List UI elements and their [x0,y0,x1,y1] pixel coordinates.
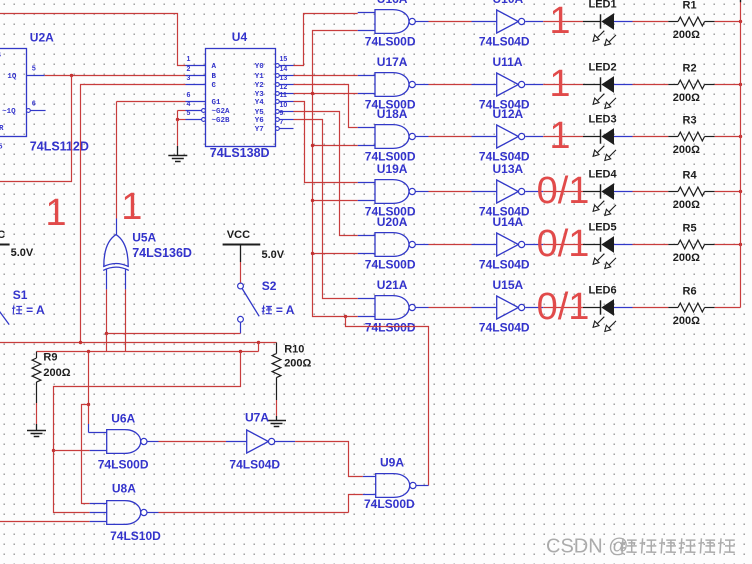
svg-text:74LS04D: 74LS04D [479,258,530,272]
junction R9 net to U6A/U8A feed [87,350,90,353]
switch S1 arm (clipped) [0,310,9,325]
U20A input stub 2 [358,253,375,255]
resistor R4 200ohm [678,187,715,196]
svg-text:U14A: U14A [493,215,524,229]
wire inverter U13A output to LED4 [525,191,543,193]
U4 output pin Y6 (pin 9) [276,118,294,122]
inverter U13A 74LS04D [497,180,525,203]
svg-text:5.0V: 5.0V [262,249,285,261]
svg-text:1: 1 [549,63,570,105]
U5A input stub right [125,270,127,290]
svg-text:6: 6 [32,100,36,107]
bus branch to NAND input 2 [313,200,358,202]
svg-text:R3: R3 [683,115,697,127]
wire to U6A input 2 [54,450,90,452]
U4 input pin G1 (pin 6) [186,101,206,103]
svg-text:R1: R1 [683,0,697,12]
svg-text:6: 6 [187,92,191,99]
wire R9 net down to U6A input 1 [88,352,90,425]
svg-text:Y6: Y6 [255,117,265,125]
wire to R10 hook [259,342,277,344]
svg-text:G1: G1 [212,99,222,107]
wire ~G2A ~G2B jog to ground [178,110,186,112]
svg-text:0/1: 0/1 [537,223,590,265]
svg-text:U20A: U20A [377,215,408,229]
svg-text:0/1: 0/1 [537,170,590,212]
NAND gate U19A 74LS00D [375,180,415,204]
wire connector down to R9 net [106,334,108,352]
svg-text:U9A: U9A [380,456,404,470]
wire branch to U8A input 1 [82,405,90,504]
wire LED5 to R5 [614,244,633,246]
junction right bus row 4 [739,190,742,193]
svg-text:R4: R4 [683,170,698,182]
svg-text:LED4: LED4 [589,169,618,181]
svg-text:~1Q: ~1Q [2,108,16,116]
junction bus [311,144,314,147]
junction bus [311,199,314,202]
ground under R10 [267,421,286,427]
U18A input stub 1 [358,127,375,129]
wire LED2 to R2 [614,84,633,86]
svg-text:7: 7 [280,119,284,126]
wire row 4: NAND output to inverter input [415,191,428,193]
svg-text:Y1: Y1 [255,73,265,81]
junction U5A input with S2 wire [105,332,108,335]
U4 output pin Y5 (pin 10) [276,110,294,114]
wire R10 to ground [276,400,278,416]
svg-text:74LS136D: 74LS136D [132,246,192,260]
resistor R10 200ohm (vertical) [272,343,281,401]
wire R9 to ground [36,403,38,424]
inverter U10A 74LS04D [497,10,525,33]
U17A input stub 2 [358,93,375,95]
NAND gate U16A 74LS00D [375,10,415,34]
svg-text:B: B [212,73,217,81]
junction right bus row 1 [739,20,742,23]
wire Y5 to U20A input 1 [294,112,358,236]
svg-text:1: 1 [45,192,66,234]
U6A input stub 2 [90,450,107,452]
inverter U15A 74LS04D [497,296,525,319]
U9A output stub [416,485,428,487]
junction on 1Q wire [70,74,73,77]
U5A output stub [116,219,118,235]
wire row 5: NAND output to inverter input [415,244,428,246]
U4 output pin Y7 (pin 7) [276,127,294,131]
wire U5A left input down [106,289,108,333]
wire row 3: NAND output to inverter input [415,136,428,138]
svg-text:200Ω: 200Ω [673,315,700,327]
bus branch to NAND input 2 [313,253,358,255]
U4 input pin A (pin 1) [186,65,206,67]
NAND gate U20A 74LS00D [375,233,415,257]
junction ~G2B [176,118,179,121]
svg-text:U11A: U11A [493,55,523,69]
wire inverter U10A output to LED1 [525,21,543,23]
U16A input stub 2 [358,30,375,32]
svg-text:200Ω: 200Ω [43,367,70,379]
svg-text:5.0V: 5.0V [11,247,34,259]
IC U2A 74LS112D flip-flop box (clipped at left edge) [0,49,27,137]
wire U8A output to U9A input 2 [147,512,158,514]
wire U7A output to U9A input 1 [275,441,295,443]
wire Y3 to U17A input 2 [294,93,358,95]
NAND gate U21A 74LS00D [375,296,415,320]
IC U4 74LS138D decoder box [206,49,276,147]
ground under U4 [168,156,187,162]
U4 input pin C (pin 3) [186,84,206,86]
svg-text:LED3: LED3 [589,114,617,126]
svg-text:A: A [212,63,217,71]
svg-text:200Ω: 200Ω [673,29,700,41]
svg-text:11: 11 [280,92,288,99]
svg-text:R2: R2 [683,63,697,75]
U21A input stub 2 [358,316,375,318]
junction right bus row 5 [739,243,742,246]
svg-text:= A: = A [24,303,45,317]
svg-text:74LS04D: 74LS04D [229,458,280,472]
svg-text:R9: R9 [43,352,57,364]
wire S2 to U5A input junction [107,333,241,335]
bus branch to NAND input 2 [313,145,358,147]
wire R2 to right bus [715,84,741,86]
U8A input stub 2 [90,512,107,514]
NAND gate U6A 74LS00D [107,430,147,454]
wire lower feed to U6A input 2 and U8A input 2 [54,352,241,513]
svg-text:5: 5 [32,65,36,72]
junction right bus row 2 [739,83,742,86]
inverter U7A 74LS04D [247,430,275,453]
label S1 key = A [12,305,22,314]
wire U5A right input down to R9 net [125,289,127,351]
svg-text:U18A: U18A [377,107,408,121]
wire Y0 to U16A input 1 [294,14,358,66]
svg-text:LED1: LED1 [589,0,617,11]
svg-text:74LS00D: 74LS00D [365,321,416,335]
svg-text:R: R [0,125,4,133]
svg-text:Y4: Y4 [255,99,265,107]
LED6 diode symbol [593,299,616,331]
inverter U11A 74LS04D [497,73,525,96]
wire VCC to S2 [240,262,242,283]
junction U9A feedback on U21A input 2 [344,315,347,318]
svg-text:VCC: VCC [0,229,5,241]
wire R1 to right bus [715,21,741,23]
U5A input stub left [106,270,108,290]
U8A input stub 1 [90,503,107,505]
right vertical bus wire [740,2,742,308]
wire row 2: NAND output to inverter input [415,84,428,86]
U9A input stub 2 [363,494,376,496]
svg-text:Y5: Y5 [255,109,265,117]
U18A input stub 2 [358,145,375,147]
NAND gate U9A 74LS00D [376,474,416,498]
svg-text:14: 14 [280,66,288,73]
power VCC 5V (left, clipped) [0,244,10,246]
wire Y1 to U17A input 1 [294,75,358,77]
wire branch of 1Q down and off left edge [0,76,72,182]
U16A input stub 1 [358,12,375,14]
U4 output pin Y3 (pin 12) [276,92,294,96]
NAND gate U8A 74LS10D [107,501,147,525]
svg-text:9: 9 [280,110,284,117]
svg-text:5: 5 [0,144,3,151]
svg-text:R5: R5 [683,223,697,235]
svg-text:10: 10 [280,102,288,109]
svg-text:U17A: U17A [377,55,408,69]
svg-text:1: 1 [187,56,191,63]
label S2 key = A [262,305,272,314]
wire U5A output up to U4 pin G1 [117,101,186,103]
wire LED3 to R3 [614,136,633,138]
wire U6A output to U7A input [147,441,158,443]
junction R10 connection [257,341,260,344]
resistor R6 200ohm [678,303,715,312]
U19A input stub 1 [358,182,375,184]
svg-text:LED2: LED2 [589,62,617,74]
svg-text:U21A: U21A [377,278,408,292]
svg-text:4: 4 [187,101,191,108]
svg-text:74LS10D: 74LS10D [110,529,161,543]
wire R3 to right bus [715,136,741,138]
svg-text:C: C [212,82,217,90]
junction right bus row 3 [739,135,742,138]
U9A input stub 1 [363,476,376,478]
wire LED6 to R6 [614,307,633,309]
wire U2A 1Q to U4 pin B [45,75,186,77]
junction S1 net with U4-C wire [79,341,82,344]
LED2 diode symbol [593,76,616,108]
black tip of right bus at top edge [740,0,742,2]
svg-text:U2A: U2A [30,31,54,45]
wire U9A output feedback to U21A input 2 [346,317,429,486]
svg-text:200Ω: 200Ω [673,144,700,156]
svg-text:U12A: U12A [493,107,524,121]
svg-text:LED5: LED5 [589,222,617,234]
U4 output pin Y2 (pin 13) [276,83,294,87]
resistor R5 200ohm [678,240,715,249]
U8A input stub 3 [90,521,107,523]
NAND gate U18A 74LS00D [375,125,415,149]
U19A input stub 2 [358,200,375,202]
svg-text:Y2: Y2 [255,82,265,90]
svg-text:U8A: U8A [112,482,136,496]
svg-text:1: 1 [549,115,570,157]
switch S2 [238,283,260,333]
svg-text:1Q: 1Q [7,73,17,81]
svg-text:74LS00D: 74LS00D [365,258,416,272]
U4 output pin Y0 (pin 15) [276,64,294,68]
U4 input pin ~G2A (pin 4) [186,109,206,113]
wire U4 pin C down to S1 net [81,85,186,343]
svg-text:74LS00D: 74LS00D [365,35,416,49]
junction bus at Y3 wire [311,92,314,95]
svg-text:U4: U4 [232,30,248,44]
U21A input stub 1 [358,298,375,300]
wire inverter U15A output to LED6 [525,307,543,309]
svg-text:U15A: U15A [493,278,524,292]
wire row 6: NAND output to inverter input [415,307,428,309]
svg-text:5: 5 [187,110,191,117]
svg-text:15: 15 [280,56,288,63]
wire Y4 to U19A input 1 [294,102,358,183]
wire connector down to R9 net [258,343,260,352]
U4 input pin ~G2B (pin 5) [186,118,206,122]
svg-text:~G2B: ~G2B [212,117,231,125]
svg-text:1: 1 [121,186,142,228]
svg-text:R10: R10 [284,344,304,356]
wire inverter U14A output to LED5 [525,244,543,246]
svg-text:Y3: Y3 [255,91,265,99]
inverter U14A 74LS04D [497,233,525,256]
junction R9 net to lower feed [239,350,242,353]
vertical bus wire from Y3 net to NAND second inputs [313,31,358,317]
resistor R9 200ohm (vertical) [32,352,41,404]
resistor R3 200ohm [678,132,715,141]
svg-text:74LS00D: 74LS00D [98,458,149,472]
wire Y6 to U21A input 1 [294,120,358,299]
svg-text:R6: R6 [683,286,697,298]
wire inverter U11A output to LED2 [525,84,543,86]
svg-text:~G2A: ~G2A [212,108,231,116]
svg-text:U10A: U10A [493,0,524,6]
svg-text:VCC: VCC [227,229,250,241]
junction bus [311,252,314,255]
svg-text:200Ω: 200Ω [284,358,311,370]
svg-text:13: 13 [280,75,288,82]
svg-text:LED6: LED6 [589,285,617,297]
U17A input stub 1 [358,75,375,77]
svg-text:74LS138D: 74LS138D [210,146,270,160]
inverter U12A 74LS04D [497,125,525,148]
svg-text:S1: S1 [13,288,28,302]
wire Y2 to U18A input 1 [294,85,358,128]
wire R4 to right bus [715,191,741,193]
wire R5 to right bus [715,244,741,246]
svg-text:200Ω: 200Ω [673,252,700,264]
wire row 1: NAND output to inverter input [415,21,428,23]
junction U6A input 2 branch [52,449,55,452]
LED3 diode symbol [593,128,616,160]
svg-text:U16A: U16A [377,0,408,6]
XOR gate U5A 74LS136D (pointing up) [103,235,129,271]
resistor R2 200ohm [678,80,715,89]
svg-text:U13A: U13A [493,162,524,176]
svg-text:U6A: U6A [111,412,135,426]
svg-text:Y7: Y7 [255,126,264,134]
junction feed split [87,403,90,406]
svg-text:200Ω: 200Ω [673,92,700,104]
wire net S1/R10 along y=342 [0,342,259,344]
ground under R9 [27,431,46,437]
resistor R1 200ohm [678,17,715,26]
wire node A: top edge to U4 pin A [0,14,186,66]
svg-text:74LS00D: 74LS00D [364,497,415,511]
svg-text:3: 3 [187,75,191,82]
svg-text:74LS04D: 74LS04D [479,321,530,335]
LED5 diode symbol [593,236,616,268]
NAND gate U17A 74LS00D [375,73,415,97]
U2A pin 6 (~1Q) stub [27,109,46,113]
LED4 diode symbol [593,183,616,215]
U4 output pin Y4 (pin 11) [276,100,294,104]
wire LED4 to R4 [614,191,633,193]
wire inverter U12A output to LED3 [525,136,543,138]
LED1 diode symbol [593,13,616,45]
U4 output pin Y1 (pin 14) [276,74,294,78]
svg-text:1: 1 [549,0,570,42]
svg-text:= A: = A [274,303,295,317]
U20A input stub 1 [358,235,375,237]
wire net R9 top [37,351,259,353]
svg-text:U5A: U5A [132,231,156,245]
power VCC 5V (middle) [223,245,261,263]
svg-text:74LS04D: 74LS04D [479,35,530,49]
svg-text:4: 4 [0,52,1,59]
U2A pin 5 (1Q) stub [27,75,45,77]
svg-text:12: 12 [280,84,288,91]
svg-text:U19A: U19A [377,162,408,176]
svg-text:U7A: U7A [245,411,269,425]
wire R6 to right bus [715,307,741,309]
svg-text:CSDN @: CSDN @ [546,536,629,558]
svg-text:Y0: Y0 [255,63,265,71]
svg-text:S2: S2 [262,279,277,293]
svg-text:2: 2 [187,66,191,73]
U4 input pin B (pin 2) [186,75,206,77]
wire LED1 to R1 [614,21,633,23]
wire from left edge to U8A input 3 [0,521,90,523]
svg-text:0/1: 0/1 [537,286,590,328]
svg-text:200Ω: 200Ω [673,199,700,211]
